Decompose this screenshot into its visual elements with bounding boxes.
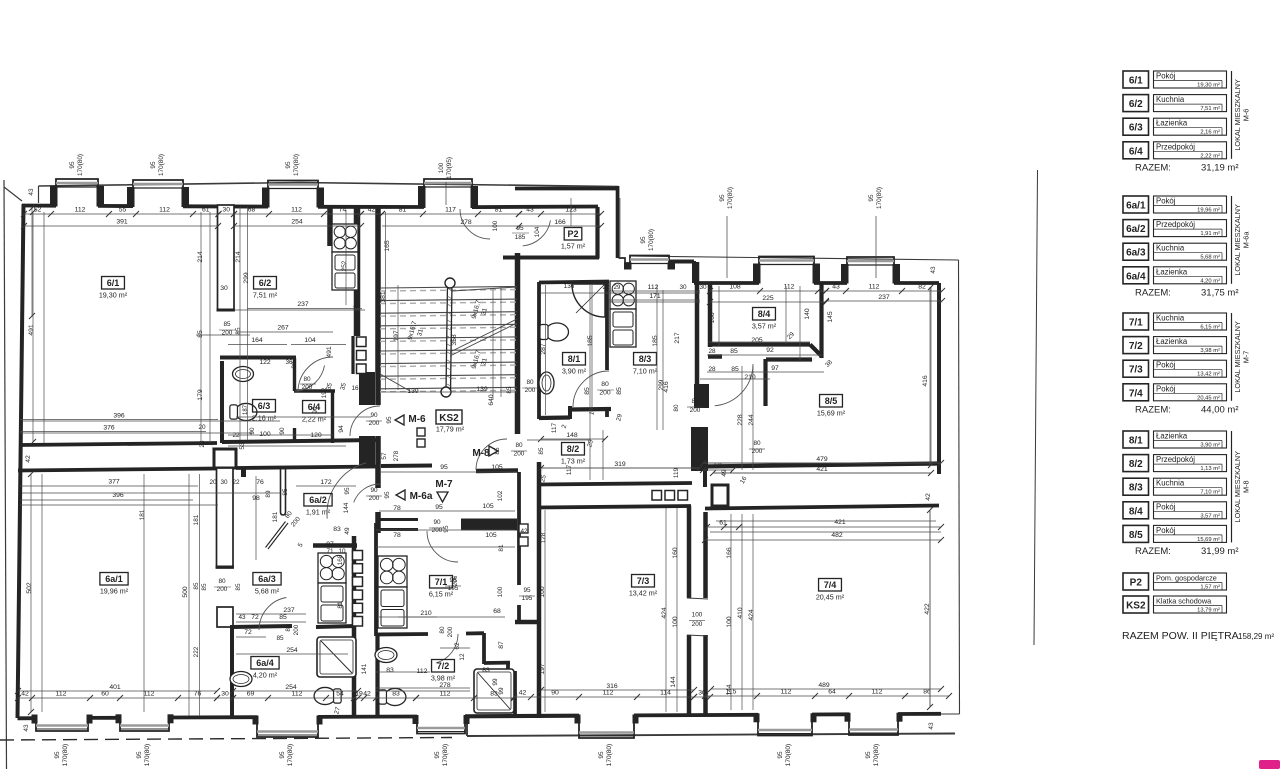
svg-text:42: 42 (520, 528, 528, 535)
svg-text:6a/3: 6a/3 (258, 574, 276, 584)
KS2 label (436, 410, 462, 424)
svg-text:RAZEM POW. II PIĘTRA:: RAZEM POW. II PIĘTRA: (1122, 630, 1242, 642)
wall E of bath 8/1 upper (605, 281, 609, 370)
svg-text:1,91 m²: 1,91 m² (1200, 231, 1220, 237)
svg-text:252: 252 (341, 260, 348, 271)
svg-text:100: 100 (672, 616, 679, 628)
svg-text:112: 112 (603, 690, 614, 697)
step wall down to 8/4 section (692, 261, 696, 283)
svg-text:7/2: 7/2 (1129, 341, 1143, 352)
svg-text:82: 82 (918, 284, 926, 291)
svg-text:181: 181 (193, 514, 200, 525)
door M-6a apartment door arc (354, 484, 380, 502)
kitchen 7/1 sink (378, 587, 407, 628)
svg-text:6,15 m²: 6,15 m² (1200, 325, 1220, 331)
left vertical dims (31, 208, 33, 316)
svg-text:Kuchnia: Kuchnia (1156, 95, 1185, 104)
svg-text:200: 200 (222, 330, 233, 337)
svg-text:7/3: 7/3 (1129, 365, 1143, 376)
svg-text:112: 112 (144, 691, 155, 698)
svg-text:31,99 m²: 31,99 m² (1201, 546, 1239, 557)
svg-text:299: 299 (243, 272, 250, 284)
svg-text:16: 16 (352, 305, 360, 312)
door M-8 apartment door arc (476, 439, 507, 470)
svg-text:72: 72 (244, 629, 252, 636)
room P2 label (564, 228, 582, 241)
svg-text:500: 500 (182, 586, 189, 598)
svg-text:20,45 m²: 20,45 m² (816, 593, 845, 602)
svg-text:85: 85 (506, 386, 513, 394)
scan artifact magenta badge bottom right (1259, 760, 1280, 769)
svg-text:85: 85 (197, 330, 204, 338)
svg-text:M-8: M-8 (1242, 480, 1251, 493)
svg-text:85: 85 (201, 583, 208, 591)
svg-text:6/4: 6/4 (1129, 146, 1143, 157)
svg-text:M-6a: M-6a (1242, 231, 1251, 249)
svg-text:60: 60 (101, 691, 109, 698)
svg-text:117: 117 (445, 207, 456, 214)
svg-text:43: 43 (526, 207, 534, 214)
kitchen 7/1 stove (378, 556, 407, 587)
svg-text:61: 61 (699, 443, 707, 450)
svg-text:KS2: KS2 (439, 413, 459, 424)
svg-text:391: 391 (116, 219, 128, 226)
svg-text:421: 421 (834, 519, 846, 526)
legend group M-6 (1123, 71, 1149, 88)
room 7/3 label (632, 575, 655, 588)
wall S of 7/1 E part (466, 631, 484, 635)
svg-text:80: 80 (218, 578, 226, 585)
corridor E wall upper (537, 462, 542, 506)
apartment marker M-6a (396, 490, 405, 500)
svg-text:6a/1: 6a/1 (1126, 201, 1146, 212)
svg-text:6a/3: 6a/3 (1126, 248, 1146, 259)
svg-text:M-7: M-7 (435, 479, 453, 490)
door M-6a door leaf arc into 6a/2 (327, 463, 366, 519)
wall N of hall 6a/2 (236, 467, 379, 469)
wall between 6a/1 and 6a/3 (hollow masonry) (217, 468, 234, 568)
svg-text:85: 85 (235, 583, 242, 591)
svg-text:7/1: 7/1 (435, 577, 448, 587)
staircase handrail (446, 283, 448, 392)
exterior wall N of 8/4 W of O6 (694, 281, 759, 285)
wall W of bath 8/1 (537, 282, 541, 419)
svg-text:85: 85 (279, 614, 287, 621)
svg-text:7,10 m²: 7,10 m² (633, 367, 658, 376)
door 6/3 door arc (295, 365, 324, 391)
dimension row top left (24, 213, 219, 215)
svg-text:7/4: 7/4 (1129, 388, 1143, 399)
room 8/2 label (562, 443, 585, 456)
kitchen 8/3 sink (610, 309, 636, 347)
neighbour outline top-left (4, 187, 22, 201)
svg-text:491: 491 (326, 346, 333, 358)
wall E of kitchen 8/3 upper (695, 262, 700, 322)
svg-text:181: 181 (272, 511, 279, 522)
svg-text:172: 172 (320, 479, 332, 486)
svg-text:287: 287 (540, 343, 547, 355)
svg-text:100: 100 (726, 616, 733, 628)
svg-text:228: 228 (737, 414, 744, 426)
svg-text:81: 81 (498, 544, 505, 552)
svg-text:15,69 m²: 15,69 m² (1197, 537, 1220, 543)
svg-text:6a/4: 6a/4 (256, 658, 274, 668)
flue stack between 6/2 and staircase (357, 337, 367, 347)
svg-text:7,51 m²: 7,51 m² (253, 291, 278, 300)
dimension row bottom right 7/4 (705, 695, 949, 697)
exterior wall S, W of window O8 (18, 716, 37, 720)
room 6/1 label (102, 277, 125, 290)
wall N of room 7/3 (538, 506, 691, 508)
svg-text:Pokój: Pokój (1156, 526, 1176, 535)
svg-text:76: 76 (256, 479, 264, 486)
svg-text:104: 104 (534, 226, 541, 237)
svg-text:7,10 m²: 7,10 m² (1200, 490, 1220, 496)
svg-text:RAZEM:: RAZEM: (1135, 287, 1171, 298)
svg-text:117: 117 (566, 464, 573, 475)
room 8/3 label (634, 353, 657, 366)
ground line under 7/4 bays (467, 734, 955, 737)
svg-text:1,91 m²: 1,91 m² (306, 508, 331, 517)
svg-text:491: 491 (28, 324, 35, 336)
svg-text:1,57 m²: 1,57 m² (561, 242, 586, 251)
chamfer lower (810, 349, 824, 363)
stair hall E wall (515, 253, 521, 434)
svg-text:95: 95 (285, 161, 292, 169)
svg-text:58: 58 (714, 463, 722, 470)
svg-text:RAZEM:: RAZEM: (1135, 162, 1171, 173)
svg-text:95: 95 (344, 487, 351, 495)
svg-text:102: 102 (497, 490, 504, 501)
P2 S wall (503, 256, 599, 260)
svg-text:22: 22 (232, 479, 240, 486)
svg-text:166: 166 (726, 547, 733, 559)
svg-text:97: 97 (771, 365, 779, 372)
svg-text:29: 29 (614, 285, 621, 291)
svg-text:128: 128 (540, 532, 547, 543)
svg-text:114: 114 (660, 690, 671, 697)
wall N of bath 6/3 (220, 356, 296, 360)
wall S of bath 8/1 W part (539, 415, 570, 420)
door 6/4 to 6/2 arc (298, 357, 333, 392)
svg-text:43: 43 (930, 266, 937, 274)
svg-text:222: 222 (193, 646, 200, 657)
svg-text:61: 61 (719, 520, 727, 527)
step at SW corner of 7/2 (466, 720, 468, 737)
svg-text:112: 112 (75, 207, 86, 214)
svg-text:8/3: 8/3 (1129, 483, 1143, 494)
chamfer wall SE corner of 8/4 (810, 345, 822, 357)
svg-text:6/3: 6/3 (258, 401, 271, 411)
svg-text:112: 112 (784, 284, 795, 291)
svg-text:141: 141 (361, 663, 368, 674)
wall E of kitchen 6a/3 (352, 536, 357, 626)
svg-text:62: 62 (454, 642, 461, 650)
small flue pair near M-8 (417, 428, 425, 436)
svg-text:112: 112 (159, 207, 170, 214)
svg-text:237: 237 (297, 301, 309, 308)
kitchen 6a/3 sink (318, 583, 346, 623)
site boundary dashed line bottom (0, 738, 452, 741)
svg-text:148: 148 (566, 432, 578, 439)
svg-text:15,69 m²: 15,69 m² (817, 409, 846, 418)
svg-text:95: 95 (279, 751, 286, 759)
svg-text:170(80): 170(80) (442, 744, 449, 766)
wall S of hall 6a/2 (313, 543, 357, 548)
window O12 room 7/4 left 95/170(80) (758, 715, 812, 736)
svg-text:95: 95 (523, 587, 531, 594)
svg-text:7/1: 7/1 (1129, 318, 1143, 329)
svg-text:105: 105 (491, 464, 503, 471)
svg-text:424: 424 (661, 607, 668, 619)
svg-text:Pokój: Pokój (1156, 502, 1176, 511)
room 7/4 label (819, 579, 842, 592)
svg-text:4,20 m²: 4,20 m² (253, 671, 278, 680)
svg-text:3,90 m²: 3,90 m² (1200, 443, 1220, 449)
wall S of staircase flight (381, 464, 432, 469)
svg-text:170(80): 170(80) (293, 154, 300, 176)
svg-text:89: 89 (265, 490, 272, 498)
window O4 staircase 100/170(95) (424, 179, 472, 206)
wall E of kitchen 6/2 (354, 206, 361, 336)
svg-text:Przedpokój: Przedpokój (1156, 455, 1195, 464)
svg-text:43: 43 (23, 724, 30, 732)
svg-text:20: 20 (209, 479, 217, 486)
door M-7 door arc into 7/1 (427, 531, 458, 562)
svg-text:83: 83 (482, 667, 490, 674)
door P2 door arc (523, 220, 551, 246)
exterior wall S E of O13 (898, 712, 941, 716)
svg-text:5,68 m²: 5,68 m² (255, 587, 280, 596)
svg-text:85: 85 (494, 447, 501, 455)
svg-text:95: 95 (136, 751, 143, 759)
svg-text:87: 87 (498, 641, 505, 649)
svg-text:112: 112 (781, 689, 792, 696)
thick wall W of stair hall upper chunk (359, 372, 375, 405)
wall W of kitchen 7/1 (374, 523, 378, 636)
svg-text:Pokój: Pokój (1156, 384, 1176, 393)
svg-text:95: 95 (54, 751, 61, 759)
door 7/2 door arc (436, 634, 458, 663)
legend group M-8 (1123, 431, 1149, 448)
niche tongue wall 6a/2 (281, 469, 286, 515)
svg-text:95: 95 (150, 161, 157, 169)
svg-text:95: 95 (435, 504, 443, 511)
svg-text:166: 166 (554, 219, 566, 226)
door 6/1 entry from hall 6/4 arc (460, 209, 490, 239)
svg-text:8/4: 8/4 (1129, 506, 1143, 517)
svg-text:23: 23 (199, 440, 206, 448)
svg-text:6/2: 6/2 (1129, 99, 1143, 110)
svg-text:80: 80 (691, 398, 699, 405)
svg-text:640: 640 (488, 394, 495, 406)
svg-text:80: 80 (526, 379, 534, 386)
svg-text:97: 97 (326, 541, 334, 548)
svg-text:94: 94 (338, 425, 345, 433)
svg-text:54: 54 (336, 691, 344, 698)
svg-text:42: 42 (925, 493, 932, 501)
svg-text:71: 71 (326, 548, 334, 555)
svg-text:6/1: 6/1 (107, 278, 120, 288)
wall N of kitchen 7/1 W outer leaf (377, 518, 418, 521)
svg-text:210: 210 (744, 374, 756, 381)
exterior wall W (18, 204, 24, 718)
exterior wall N, E of O4 incl. P2 (472, 205, 598, 209)
room 8/5 label (820, 395, 843, 408)
window O9 room 6a/1 right 95/170(80) (120, 716, 169, 731)
stub below 6/4 door (293, 428, 296, 443)
svg-text:424: 424 (748, 609, 755, 621)
svg-text:200: 200 (692, 621, 703, 628)
wall W of room 7/3 (537, 506, 542, 718)
svg-text:6a/4: 6a/4 (1126, 271, 1146, 282)
svg-text:83: 83 (392, 691, 400, 698)
long interior dimension lines (200, 212, 202, 443)
window O13 room 7/4 right 95/170(80) (849, 714, 898, 735)
svg-text:316: 316 (606, 683, 618, 690)
svg-text:95: 95 (719, 194, 726, 202)
svg-text:100: 100 (438, 162, 445, 173)
svg-text:RAZEM:: RAZEM: (1135, 546, 1171, 557)
svg-text:80: 80 (439, 626, 446, 634)
door leaf diagonal 6a/2-6a/3 (268, 523, 288, 549)
svg-text:80: 80 (303, 376, 311, 383)
svg-text:170(80): 170(80) (606, 744, 613, 766)
window O2 room 6/1 right 95/170(80) (133, 180, 183, 205)
svg-text:200: 200 (293, 624, 300, 635)
exterior wall N of 8/5 E of O7 (894, 281, 939, 285)
svg-text:170(80): 170(80) (727, 187, 734, 209)
door M-6 apartment door arc (350, 406, 380, 436)
svg-text:90: 90 (551, 690, 559, 697)
svg-text:10: 10 (338, 548, 346, 555)
exterior wall S between O11 O12 (634, 713, 758, 717)
svg-text:19,96 m²: 19,96 m² (1197, 208, 1220, 214)
leader lines from bay labels (726, 216, 728, 278)
wall S of room 8/5 (700, 464, 941, 467)
wall N of room 6a/1 (18, 469, 216, 471)
wall W of bath 6a/4 (230, 625, 234, 718)
wall N of kitchen 8/3 E of window O5 (669, 260, 694, 264)
svg-text:410: 410 (737, 607, 744, 619)
svg-text:112: 112 (872, 689, 883, 696)
svg-text:205: 205 (751, 337, 763, 344)
svg-text:30: 30 (220, 285, 228, 292)
svg-text:42: 42 (25, 455, 32, 463)
wall E of shower 7/2 (513, 671, 517, 716)
svg-text:112: 112 (291, 207, 302, 214)
window O10 bath 7/2 95/170(80) (417, 717, 465, 734)
svg-text:416: 416 (922, 375, 929, 387)
wall E of room 8/4 (819, 283, 823, 358)
stair break diagonals (450, 323, 517, 356)
washbasin 6a/4 (230, 672, 252, 687)
svg-text:Pokój: Pokój (1156, 72, 1176, 81)
flue row below corridor 8/2 (652, 491, 662, 501)
wall step 7/2 NE (482, 633, 486, 664)
P2 E wall (595, 207, 599, 259)
window O11 room 7/3 95/170(80) (579, 716, 634, 738)
svg-text:6/3: 6/3 (1129, 123, 1143, 134)
svg-text:Przedpokój: Przedpokój (1156, 220, 1195, 229)
svg-text:43: 43 (928, 722, 935, 730)
svg-text:165: 165 (384, 240, 391, 252)
svg-text:401: 401 (109, 684, 121, 691)
svg-text:Pom. gospodarcze: Pom. gospodarcze (1156, 574, 1217, 583)
window O8 room 6a/1 left 95/170(80) (36, 716, 88, 731)
room 6/2 label (254, 277, 277, 290)
room 6a/2 label (304, 494, 332, 507)
svg-text:170(80): 170(80) (77, 154, 84, 176)
join (540, 469, 543, 471)
legend group M-7 (1123, 313, 1149, 330)
svg-text:358: 358 (451, 334, 458, 346)
wall E of bath 8/1 lower stub (605, 407, 609, 417)
svg-text:RAZEM:: RAZEM: (1135, 404, 1171, 415)
svg-text:12: 12 (459, 653, 466, 661)
stub wall above chimney 7/4 (703, 470, 707, 487)
wall W of room 7/4 lower (703, 635, 708, 715)
stair hall W wall lower (375, 512, 381, 533)
svg-text:95: 95 (386, 416, 393, 424)
svg-text:90: 90 (312, 406, 319, 414)
svg-text:85: 85 (730, 348, 738, 355)
svg-text:30: 30 (679, 284, 687, 291)
wall E of kitchen 8/3 mid (695, 322, 700, 384)
svg-text:108: 108 (729, 284, 741, 291)
svg-text:200: 200 (447, 626, 454, 637)
svg-text:237: 237 (283, 607, 295, 614)
svg-text:144: 144 (726, 684, 733, 696)
svg-text:214: 214 (197, 251, 204, 263)
svg-text:214: 214 (235, 251, 242, 263)
svg-text:254: 254 (285, 684, 297, 691)
svg-text:299: 299 (658, 379, 665, 390)
window O5 kitchen 8/3 95/170(80) (630, 256, 669, 268)
stub wall in 8/4 hall (708, 354, 722, 359)
svg-text:57: 57 (381, 452, 388, 460)
svg-text:502: 502 (26, 582, 33, 594)
wall S of hall nook 8/4 (766, 357, 812, 361)
svg-text:31,19 m²: 31,19 m² (1201, 162, 1239, 173)
exterior wall N between O6 O7 (814, 281, 847, 285)
svg-text:13,79 m²: 13,79 m² (1197, 608, 1220, 614)
svg-text:85: 85 (193, 582, 200, 590)
svg-text:30: 30 (698, 690, 706, 697)
svg-text:170(80): 170(80) (158, 154, 165, 176)
svg-text:Klatka schodowa: Klatka schodowa (1156, 597, 1212, 606)
svg-text:90: 90 (279, 427, 286, 435)
wall stub above bath 6a/4 (217, 607, 233, 627)
wall W of bath 7/2 (375, 636, 379, 718)
shower tray 7/2 (474, 669, 514, 713)
svg-text:92: 92 (766, 347, 774, 354)
svg-text:122: 122 (259, 359, 271, 366)
svg-text:6a/2: 6a/2 (309, 495, 327, 505)
svg-text:179: 179 (197, 389, 204, 401)
svg-text:90: 90 (370, 412, 378, 419)
svg-text:30: 30 (699, 284, 707, 291)
wall between 6/3 and 6/4 (293, 358, 296, 391)
wall S of bath 6/3 and 6/4 (222, 440, 378, 442)
svg-text:112: 112 (417, 668, 428, 675)
svg-text:170(80): 170(80) (287, 744, 294, 766)
svg-text:95: 95 (443, 525, 450, 533)
right vertical dims (930, 287, 932, 465)
exterior wall N of P2 (515, 187, 619, 191)
svg-text:99: 99 (498, 687, 505, 695)
kitchen 6/2 stove (332, 224, 358, 252)
